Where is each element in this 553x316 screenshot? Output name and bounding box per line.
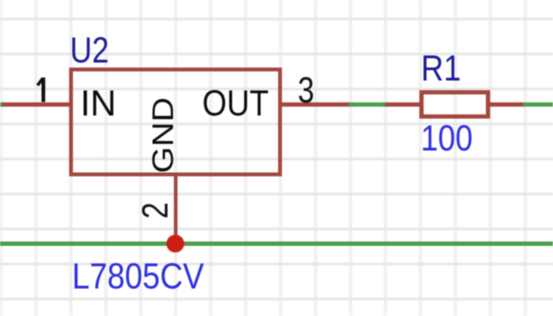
svg-text:L7805CV: L7805CV: [72, 256, 204, 297]
ground net wire (bottom): [0, 242, 553, 246]
wire (net right of R1 to edge): [523, 102, 553, 106]
pin wire R1 pin 2: [488, 102, 523, 106]
svg-text:3: 3: [298, 70, 315, 111]
pin 1 wire (IN pin of U2): [2, 102, 72, 106]
regulator U2 body: [71, 70, 280, 175]
svg-text:OUT: OUT: [202, 83, 269, 124]
svg-text:GND: GND: [147, 97, 180, 173]
svg-text:IN: IN: [80, 83, 116, 124]
svg-text:2: 2: [135, 202, 176, 219]
svg-text:U2: U2: [70, 30, 109, 71]
svg-text:R1: R1: [421, 48, 461, 89]
pin wire R1 pin 1: [385, 102, 422, 106]
resistor R1: [422, 92, 489, 116]
junction dot: [166, 235, 184, 253]
pin number 1: [36, 78, 45, 103]
wire (input net stub at left edge): [0, 102, 3, 106]
wire (OUT net between U2 and R1): [349, 102, 386, 106]
pin 3 wire (OUT pin of U2): [280, 102, 349, 106]
svg-text:100: 100: [421, 118, 473, 159]
pin 2 wire (GND pin of U2): [174, 173, 178, 244]
